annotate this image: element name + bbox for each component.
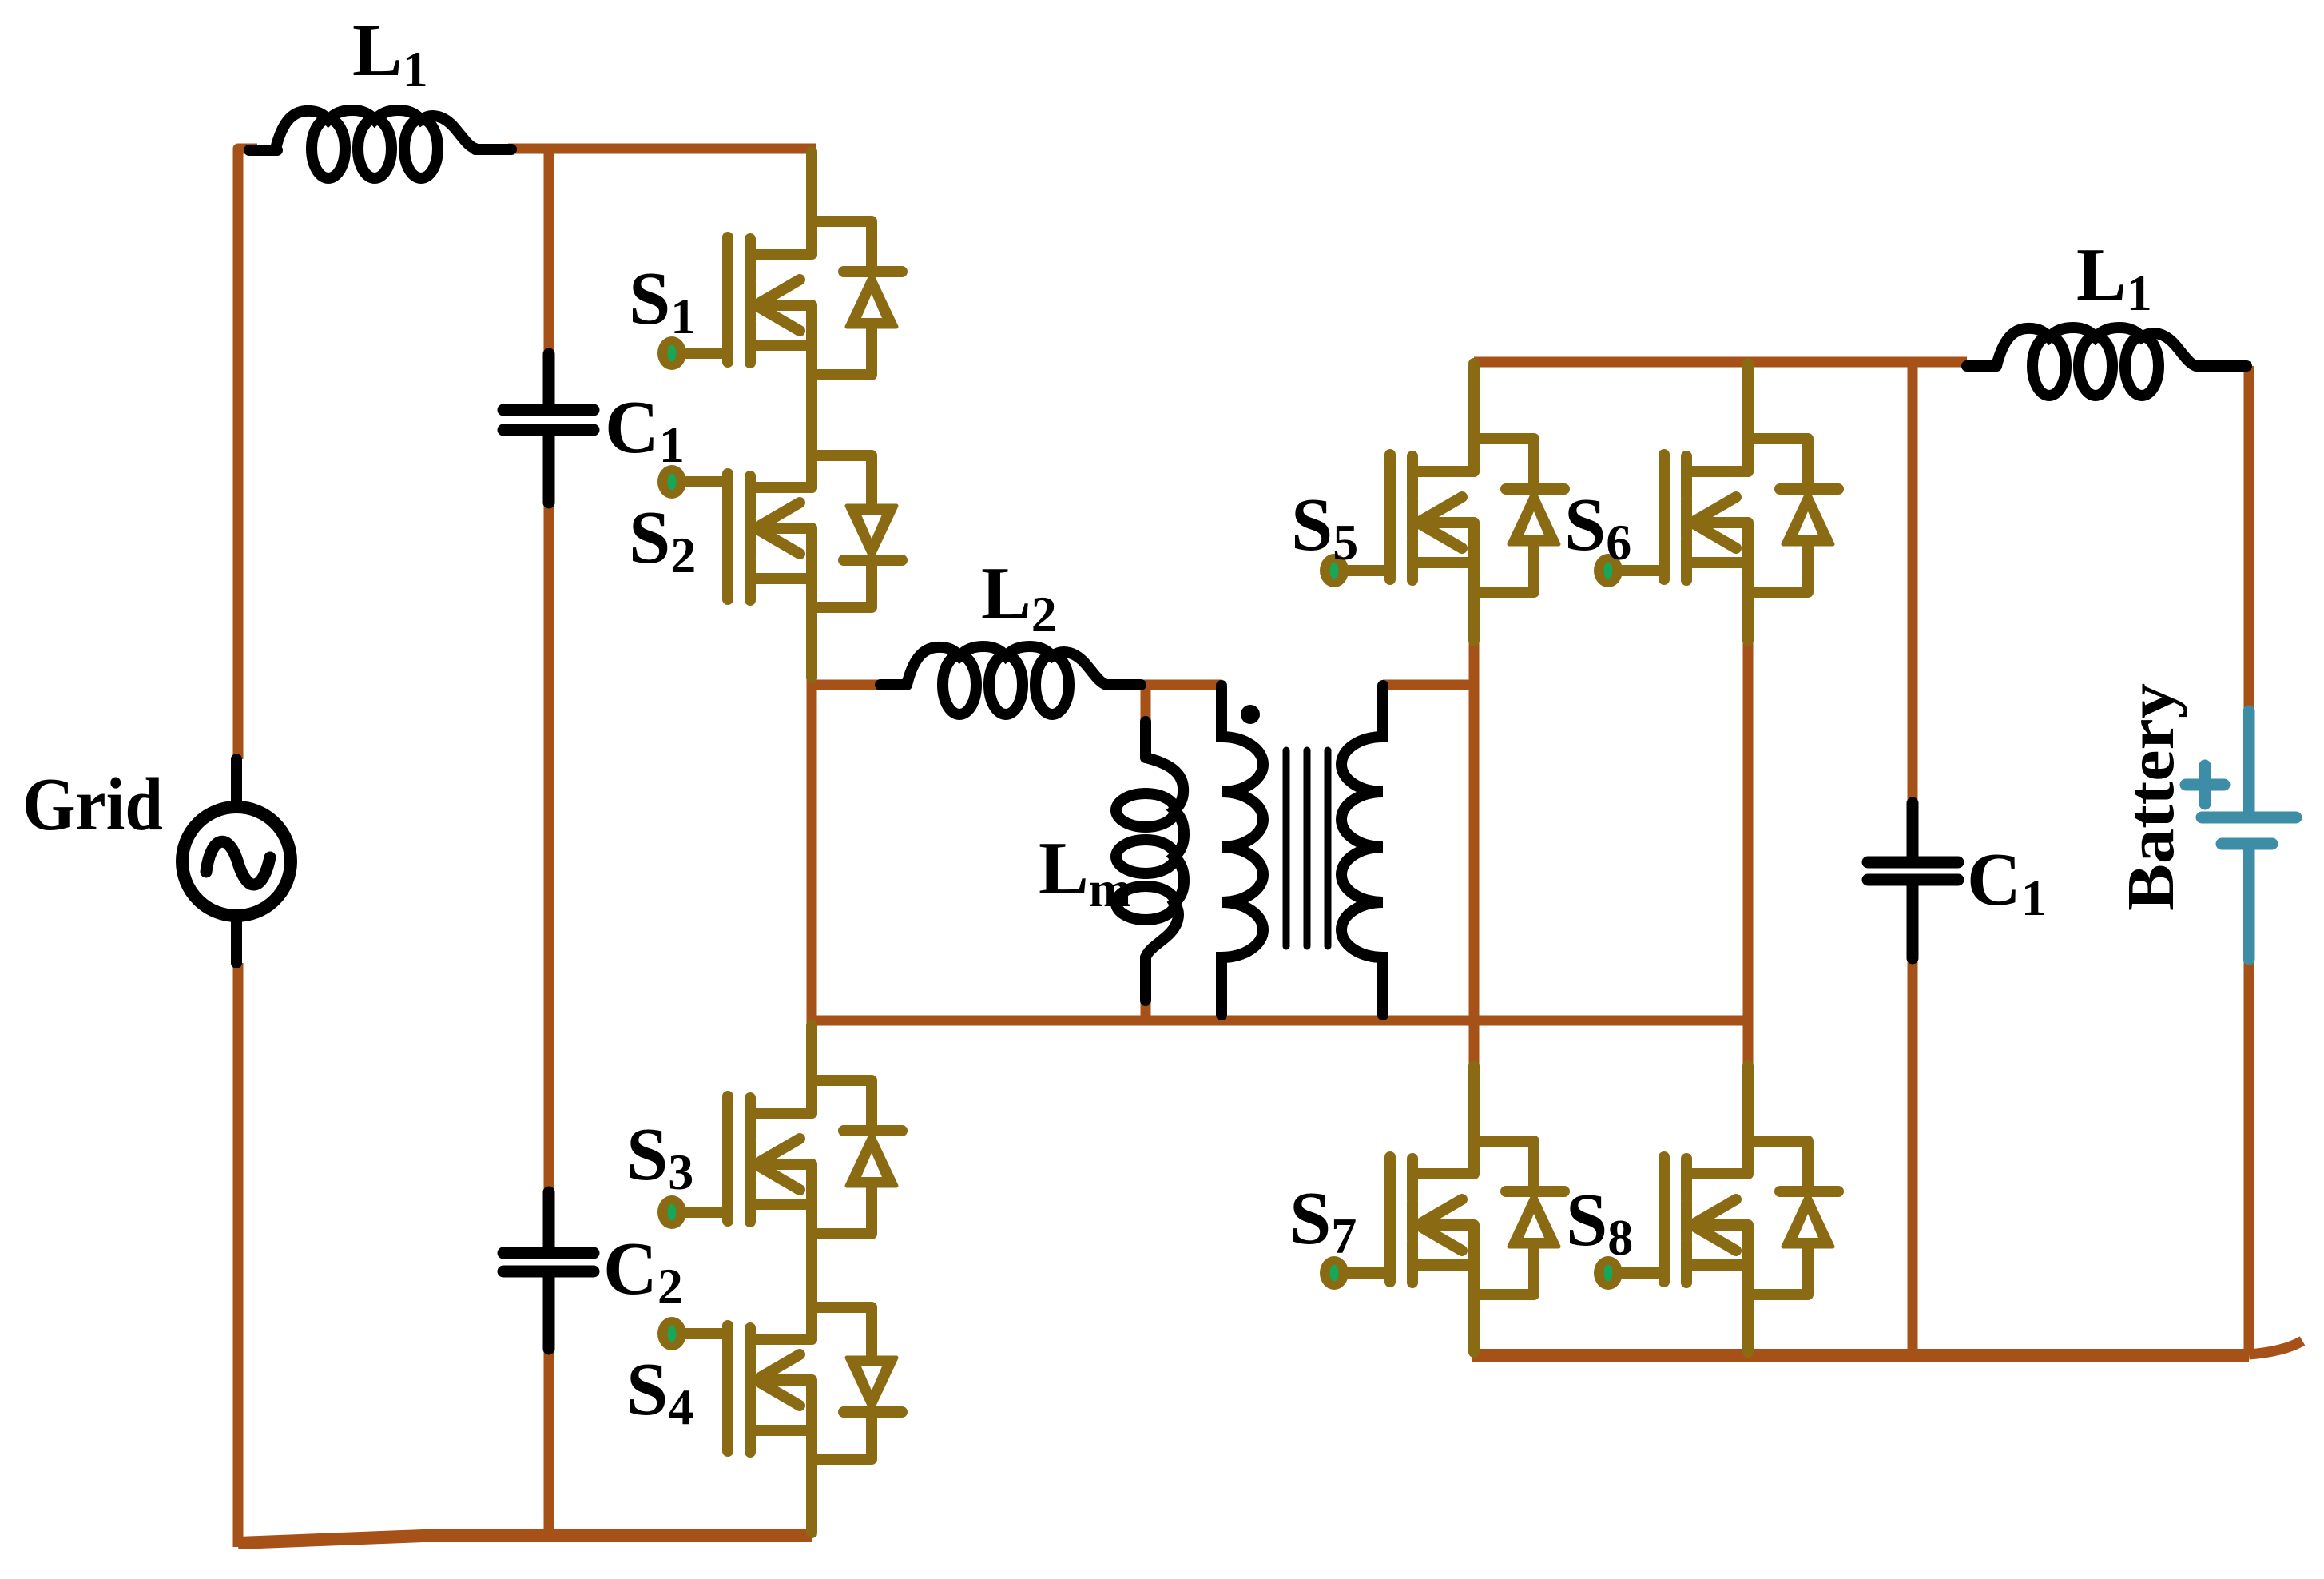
svg-text:L2: L2 bbox=[981, 552, 1057, 642]
svg-text:L1: L1 bbox=[352, 9, 428, 97]
svg-text:S8: S8 bbox=[1566, 1179, 1633, 1266]
svg-text:S1: S1 bbox=[629, 257, 696, 344]
svg-text:S6: S6 bbox=[1564, 483, 1631, 571]
svg-text:S4: S4 bbox=[626, 1348, 693, 1435]
svg-text:Lm: Lm bbox=[1039, 827, 1131, 917]
svg-text:S3: S3 bbox=[626, 1113, 693, 1200]
svg-text:Grid: Grid bbox=[22, 763, 163, 846]
svg-text:L1: L1 bbox=[2076, 233, 2152, 321]
svg-text:S7: S7 bbox=[1289, 1177, 1357, 1264]
svg-text:S2: S2 bbox=[629, 496, 696, 583]
svg-text:C1: C1 bbox=[605, 386, 685, 473]
svg-text:C2: C2 bbox=[603, 1227, 683, 1315]
svg-text:Battery: Battery bbox=[2114, 683, 2188, 911]
svg-text:S5: S5 bbox=[1291, 483, 1358, 571]
svg-text:C1: C1 bbox=[1967, 838, 2047, 926]
